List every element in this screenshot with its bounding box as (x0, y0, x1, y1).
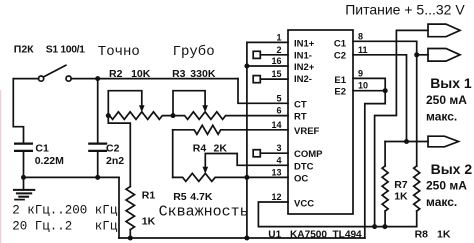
svg-text:2: 2 (276, 45, 281, 55)
svg-text:2K: 2K (214, 143, 228, 155)
svg-text:Точно: Точно (98, 44, 140, 60)
svg-text:R1: R1 (142, 190, 156, 202)
svg-text:OC: OC (294, 174, 308, 185)
svg-text:TL494: TL494 (333, 230, 363, 241)
svg-text:E2: E2 (334, 87, 346, 98)
svg-text:R2: R2 (109, 68, 123, 80)
svg-text:C1: C1 (334, 39, 347, 50)
svg-text:250 мА: 250 мА (426, 179, 467, 193)
svg-text:1K: 1K (394, 191, 408, 203)
svg-text:15: 15 (271, 69, 281, 79)
svg-text:R3: R3 (172, 68, 186, 80)
svg-text:Скважность: Скважность (159, 204, 249, 221)
svg-text:П2К: П2К (14, 44, 34, 56)
svg-text:Грубо: Грубо (173, 43, 215, 60)
svg-text:U1: U1 (268, 230, 281, 241)
svg-text:C1: C1 (35, 142, 49, 154)
svg-text:RT: RT (294, 112, 307, 123)
svg-text:IN1+: IN1+ (294, 39, 315, 50)
svg-text:R7: R7 (394, 179, 408, 191)
svg-text:10: 10 (358, 81, 368, 91)
svg-text:14: 14 (271, 120, 281, 130)
svg-text:KA7500: KA7500 (290, 230, 327, 241)
svg-text:COMP: COMP (294, 149, 323, 160)
svg-text:макс.: макс. (426, 109, 457, 123)
svg-text:4.7K: 4.7K (190, 191, 213, 203)
svg-text:Вых 1: Вых 1 (430, 75, 472, 91)
svg-text:6: 6 (276, 106, 281, 116)
svg-text:S1 100/1: S1 100/1 (46, 44, 85, 55)
svg-text:IN2-: IN2- (294, 74, 312, 85)
svg-text:8: 8 (358, 31, 363, 41)
svg-text:13: 13 (271, 167, 281, 177)
svg-text:12: 12 (271, 192, 281, 202)
svg-text:1K: 1K (142, 216, 156, 228)
svg-text:C2: C2 (106, 142, 120, 154)
svg-text:IN2+: IN2+ (294, 62, 315, 73)
svg-text:CT: CT (294, 100, 307, 111)
svg-text:2n2: 2n2 (106, 155, 124, 167)
svg-text:R4: R4 (193, 143, 207, 155)
svg-text:20 Гц..2 кГц: 20 Гц..2 кГц (12, 220, 118, 234)
svg-text:R5: R5 (173, 191, 187, 203)
svg-text:VREF: VREF (294, 126, 320, 137)
svg-text:C2: C2 (334, 50, 346, 61)
svg-text:Питание + 5...32 V: Питание + 5...32 V (345, 2, 465, 18)
svg-text:R8: R8 (415, 228, 429, 240)
svg-text:0.22M: 0.22M (35, 155, 64, 167)
svg-text:2 кГц..200 кГц: 2 кГц..200 кГц (12, 204, 118, 218)
svg-text:250 мА: 250 мА (426, 93, 467, 107)
svg-text:330K: 330K (190, 68, 216, 80)
svg-text:DTC: DTC (294, 161, 314, 172)
svg-text:IN1-: IN1- (294, 50, 312, 61)
svg-text:4: 4 (276, 155, 281, 165)
svg-text:9: 9 (358, 68, 363, 78)
svg-text:16: 16 (271, 56, 281, 66)
svg-text:10K: 10K (131, 68, 151, 80)
svg-text:1K: 1K (437, 228, 451, 240)
svg-text:1: 1 (276, 32, 281, 42)
svg-text:VCC: VCC (294, 199, 314, 210)
svg-text:E1: E1 (334, 75, 346, 86)
svg-text:Вых 2: Вых 2 (431, 161, 473, 177)
svg-text:макс.: макс. (426, 195, 457, 209)
svg-text:11: 11 (358, 45, 368, 55)
svg-text:5: 5 (276, 93, 281, 103)
svg-text:3: 3 (276, 143, 281, 153)
